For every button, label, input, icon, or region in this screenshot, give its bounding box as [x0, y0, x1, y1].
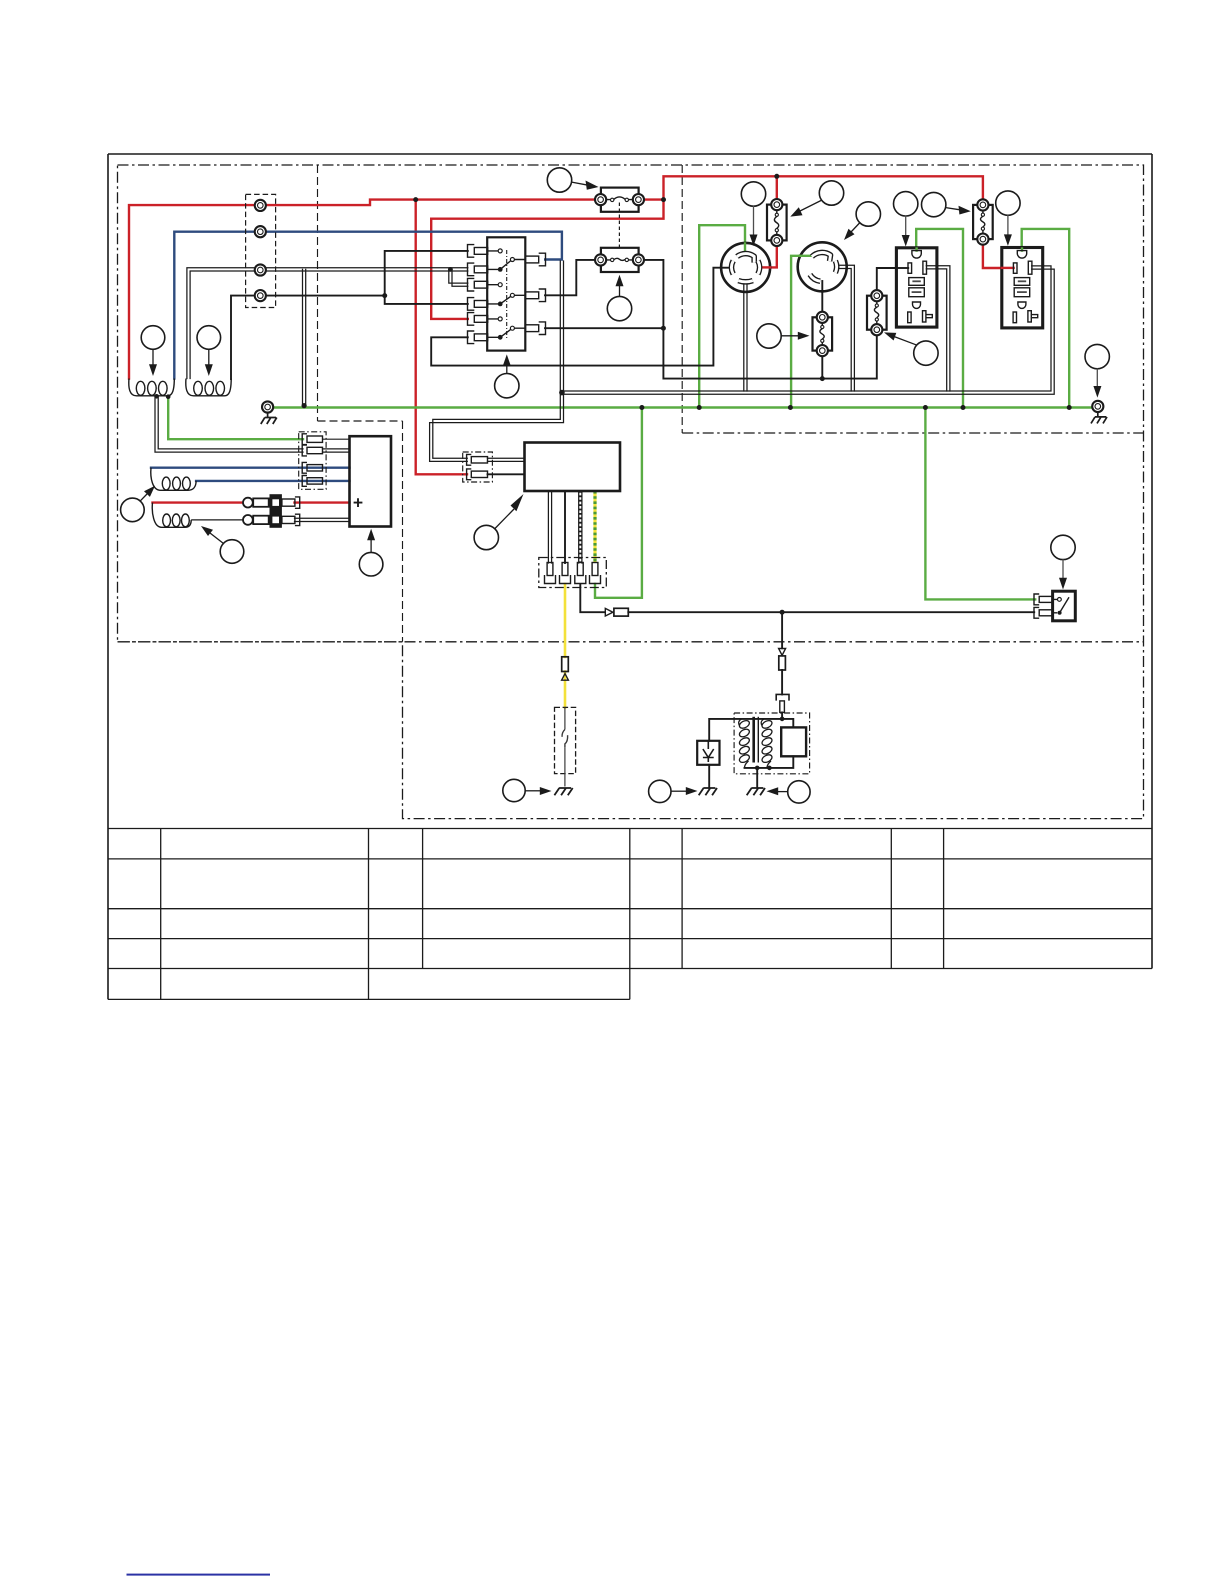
- wire blue: lamp coil to rectifier: [151, 468, 350, 481]
- node: winding tap 1: [154, 394, 159, 399]
- GFCI receptacle 2: [1002, 248, 1044, 328]
- ground G5 (ignition coil): [747, 788, 765, 795]
- wire black: sub winding / terminal 4 to selector pins 1,4: [231, 251, 468, 379]
- node: red junction after CB1: [661, 197, 666, 202]
- callout 20 (G3): [503, 779, 552, 801]
- callout 6 (GFCI2): [996, 191, 1020, 246]
- wire red: CB1 output bus to CB5, CB6, selector pin5, control unit: [416, 176, 1013, 474]
- callout 1 (CB1): [547, 168, 598, 192]
- connector (ignition coil lead): [776, 694, 789, 712]
- ground G3 (oil switch): [554, 788, 572, 795]
- engine switch pin 1: [1034, 594, 1053, 605]
- callout 17 (W4): [201, 526, 244, 563]
- wire green: GFCI1 ground: [916, 229, 963, 408]
- ground G4 (diode): [699, 788, 717, 795]
- circuit breaker CB4: [867, 290, 887, 335]
- ground terminal GT2: [1091, 401, 1107, 424]
- wire white: control unit to CN3 pin1: [548, 491, 551, 563]
- node: engine stop junction: [780, 610, 785, 615]
- callout 18 (U2): [359, 529, 383, 576]
- control unit U1: [525, 443, 621, 492]
- node: terminal4 bus junction: [382, 293, 387, 298]
- callout 12 (W2): [197, 326, 221, 376]
- callout 21 (G4): [649, 780, 698, 802]
- ignition coil T2: [734, 713, 810, 774]
- wire striped yellow-green overlay: [593, 491, 596, 563]
- callout 15 (U1): [474, 494, 523, 550]
- wire red: main winding to breaker CB1 and taps: [129, 200, 595, 379]
- callout 14 (SW1): [495, 354, 519, 398]
- callout 5 (CB5): [922, 192, 971, 216]
- callout 8 (CB2): [607, 275, 631, 321]
- wire white: sub winding / terminal 3 to selector pin2: [187, 268, 468, 379]
- selector pin 3: [468, 278, 488, 291]
- circuit breaker CB3: [813, 312, 833, 357]
- ground terminal GT1: [261, 401, 277, 424]
- node: ignition ground junction: [755, 766, 772, 771]
- wire black: control unit lead: [564, 491, 566, 563]
- wire white: winding tap to connector CN1 pin2: [155, 397, 303, 452]
- wire black: charge coil return: [191, 519, 243, 521]
- node: ground bus junction R2: [788, 405, 793, 410]
- connector CN2 (control unit 2P): [463, 452, 493, 482]
- wire white: receptacle R1 neutral: [744, 281, 747, 392]
- frame and table (structure): [108, 154, 1152, 999]
- wire white: connector CN2 pin1 to control unit: [488, 458, 525, 461]
- circuit breaker CB5: [973, 199, 993, 244]
- wire green: winding tap to connector CN1: [168, 397, 303, 439]
- wire blue: main winding to terminal 2 and selector: [174, 232, 562, 379]
- callout 9 (CB3): [757, 324, 810, 348]
- node: ground bus junction engine switch: [923, 405, 928, 410]
- node: neutral bus junction: [559, 390, 565, 396]
- wire black: engine stop line: [580, 584, 1034, 719]
- node: selector pin3 junction: [661, 326, 666, 331]
- selector out pin 1: [525, 253, 545, 266]
- wire white: bullet connector to rectifier: [295, 518, 350, 521]
- callout 11 (W1): [141, 326, 165, 376]
- selector pin 4: [468, 298, 488, 311]
- node: CB3 feed junction: [820, 376, 825, 381]
- callout 4 (GFCI1): [894, 192, 918, 247]
- callout 10 (CB4): [884, 332, 938, 365]
- engine switch pin 2: [1034, 607, 1053, 618]
- callout 22 (G5): [767, 781, 811, 803]
- section boundary (dash-dot outline): [118, 165, 1144, 819]
- selector pin 6: [468, 331, 488, 344]
- control panel section partition: [682, 165, 1143, 433]
- node: ground bus junction GFCI2: [1067, 405, 1072, 410]
- callout 19 (SW2): [1051, 535, 1075, 589]
- engine switch SW2: [1053, 591, 1076, 621]
- rectifier unit U2: [350, 436, 392, 526]
- wire striped black-white: control unit to CN3 pin3: [579, 491, 582, 563]
- receptacle R1 (125/250V locking): [721, 243, 770, 292]
- spark plug P1: [781, 727, 806, 756]
- callout 13 (GT2): [1085, 344, 1109, 397]
- wire black: ignition primary / kill wire: [709, 719, 793, 787]
- selector pin 1: [468, 245, 488, 258]
- wire black: selector out pin2 to breaker CB2: [545, 260, 595, 295]
- selector out pin 2: [525, 289, 545, 302]
- wire black: CN1 pin1 to rectifier: [323, 438, 350, 440]
- node: ignition kill junction: [780, 717, 785, 722]
- main winding W1: [129, 379, 175, 396]
- node: red junction at CB6 feed: [774, 174, 779, 179]
- terminal 3: [255, 264, 266, 275]
- wire white: receptacle R2 neutral: [837, 265, 854, 391]
- node: ground bus junction GFCI1: [961, 405, 966, 410]
- wire green: GFCI2 ground: [1022, 229, 1069, 408]
- selector pin 5: [468, 313, 488, 326]
- node: winding tap 2: [166, 394, 171, 399]
- wire black: selector out pin3 stub: [545, 327, 663, 329]
- callout 3 (CB6): [790, 181, 843, 217]
- bullet connector pair (charge leads): [243, 494, 300, 528]
- wire red: charge coil to rectifier: [153, 501, 350, 503]
- wire yellow: control unit to oil level switch: [564, 584, 567, 707]
- node: white pair branch junction: [448, 267, 453, 272]
- bullet connector (oil switch wire): [562, 657, 569, 680]
- wire white: neutral bond to ground bus: [302, 269, 307, 408]
- inline connector (engine stop wire): [605, 608, 628, 616]
- generator section partition: [318, 165, 403, 642]
- wire white: branch to selector pin3: [449, 269, 468, 286]
- selector pin 2: [468, 263, 488, 276]
- node: ground bus junction R1: [697, 405, 702, 410]
- callout 16 (W3): [121, 486, 155, 522]
- wire white: CN1 pin2 to rectifier: [323, 449, 350, 452]
- wire green: receptacle R1 ground: [699, 225, 745, 407]
- wire green: ground bus to engine switch: [925, 408, 1035, 600]
- circuit breaker CB6: [767, 199, 787, 246]
- footer rule: [127, 1574, 271, 1576]
- connector CN3 (control unit 4P): [539, 558, 607, 588]
- wire green: receptacle R2 ground: [791, 256, 817, 408]
- node: red junction at control-unit tap: [413, 197, 418, 202]
- GFCI receptacle 1: [896, 248, 938, 327]
- wire white: GFCI1 neutral: [927, 266, 950, 391]
- wire black: selector pin6 to receptacle R1 hot: [431, 268, 731, 366]
- wire black: control unit red pin lead: [488, 473, 525, 475]
- wire white: neutral tap to control unit connector: [430, 394, 564, 461]
- callout 7 (R2): [844, 202, 881, 240]
- terminal 4: [255, 290, 266, 301]
- node: ground bus junction at CN3: [639, 405, 644, 410]
- circuit breaker CB2: [595, 248, 644, 272]
- terminal strip TB1: [246, 194, 276, 307]
- charge coil W4: [152, 503, 191, 528]
- callout 2 (R1): [741, 182, 765, 246]
- diode D1: [697, 741, 719, 765]
- sub winding W2: [186, 379, 231, 396]
- wire black: CB2 output to R2, CB3, CB4 feed line: [644, 260, 909, 379]
- terminal 2: [255, 226, 266, 237]
- lamp coil W3: [151, 468, 196, 491]
- circuit breaker CB1: [595, 188, 644, 248]
- wire green: control unit connector to ground bus: [595, 408, 642, 598]
- wire green: ground bus: [268, 406, 1093, 408]
- connector CN1 (charge 4P): [299, 432, 326, 490]
- receptacle R2 (125V locking): [798, 242, 848, 292]
- selector out pin 3: [525, 322, 545, 335]
- bullet connector (kill wire): [779, 649, 786, 671]
- wire white: neutral bus from selector pin1 to GFCI2: [560, 261, 1054, 394]
- terminal 1: [255, 200, 266, 211]
- voltage selector switch SW1: [487, 237, 525, 350]
- oil level switch SW3: [555, 707, 576, 786]
